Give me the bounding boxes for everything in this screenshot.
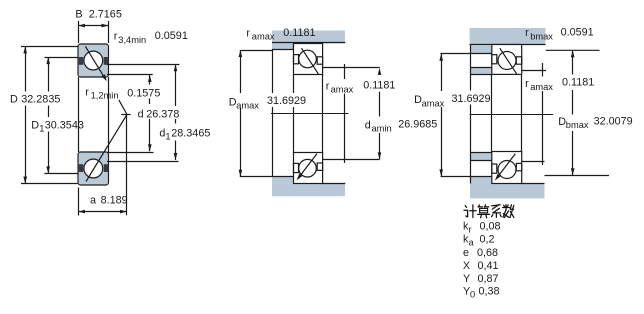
- svg-text:D: D: [31, 119, 39, 131]
- svg-text:0.0591: 0.0591: [155, 30, 188, 42]
- svg-text:r: r: [85, 86, 89, 98]
- svg-text:amax: amax: [331, 85, 354, 95]
- svg-text:r: r: [114, 31, 118, 43]
- svg-text:amax: amax: [236, 100, 259, 110]
- svg-text:d: d: [365, 120, 371, 132]
- svg-text:0,68: 0,68: [477, 247, 498, 259]
- svg-text:0: 0: [470, 290, 475, 300]
- svg-text:0.1575: 0.1575: [127, 87, 160, 99]
- svg-text:amax: amax: [422, 98, 445, 108]
- svg-text:0,41: 0,41: [478, 260, 499, 272]
- svg-text:0.0591: 0.0591: [561, 27, 594, 39]
- svg-text:32.2835: 32.2835: [21, 94, 60, 106]
- svg-text:a: a: [90, 195, 96, 207]
- svg-text:X: X: [463, 260, 470, 272]
- svg-text:0,2: 0,2: [480, 234, 495, 246]
- svg-text:B: B: [75, 9, 82, 21]
- svg-text:26.378: 26.378: [146, 109, 179, 121]
- svg-text:Y: Y: [463, 273, 470, 285]
- svg-text:0,08: 0,08: [480, 220, 501, 232]
- svg-text:30.3543: 30.3543: [45, 119, 84, 131]
- svg-text:1: 1: [39, 123, 44, 133]
- svg-text:0.1181: 0.1181: [283, 27, 315, 39]
- svg-text:r: r: [525, 78, 529, 90]
- svg-text:8.189: 8.189: [101, 195, 128, 207]
- svg-text:a: a: [469, 238, 475, 248]
- svg-text:r: r: [246, 28, 250, 40]
- svg-text:amax: amax: [530, 82, 553, 92]
- svg-text:3,4min: 3,4min: [118, 35, 146, 45]
- svg-text:amin: amin: [372, 124, 392, 134]
- svg-text:26.9685: 26.9685: [398, 119, 437, 131]
- svg-text:e: e: [463, 247, 469, 259]
- svg-text:0,38: 0,38: [479, 286, 500, 298]
- svg-text:2.7165: 2.7165: [89, 9, 122, 21]
- svg-text:bmax: bmax: [530, 32, 553, 42]
- svg-text:0.1181: 0.1181: [363, 80, 395, 92]
- svg-text:1,2min: 1,2min: [91, 91, 119, 101]
- svg-text:0.1181: 0.1181: [562, 77, 594, 89]
- svg-text:r: r: [469, 224, 472, 234]
- svg-text:bmax: bmax: [566, 120, 589, 130]
- svg-text:r: r: [326, 81, 330, 93]
- svg-text:1: 1: [165, 131, 170, 141]
- svg-text:31.6929: 31.6929: [267, 95, 306, 107]
- svg-text:28.3465: 28.3465: [171, 127, 210, 139]
- svg-text:0,87: 0,87: [478, 273, 499, 285]
- svg-text:32.0079: 32.0079: [594, 115, 633, 127]
- svg-text:D: D: [10, 94, 18, 106]
- svg-text:r: r: [525, 27, 529, 39]
- svg-text:d: d: [138, 109, 144, 121]
- svg-text:31.6929: 31.6929: [452, 93, 491, 105]
- svg-text:amax: amax: [252, 32, 275, 42]
